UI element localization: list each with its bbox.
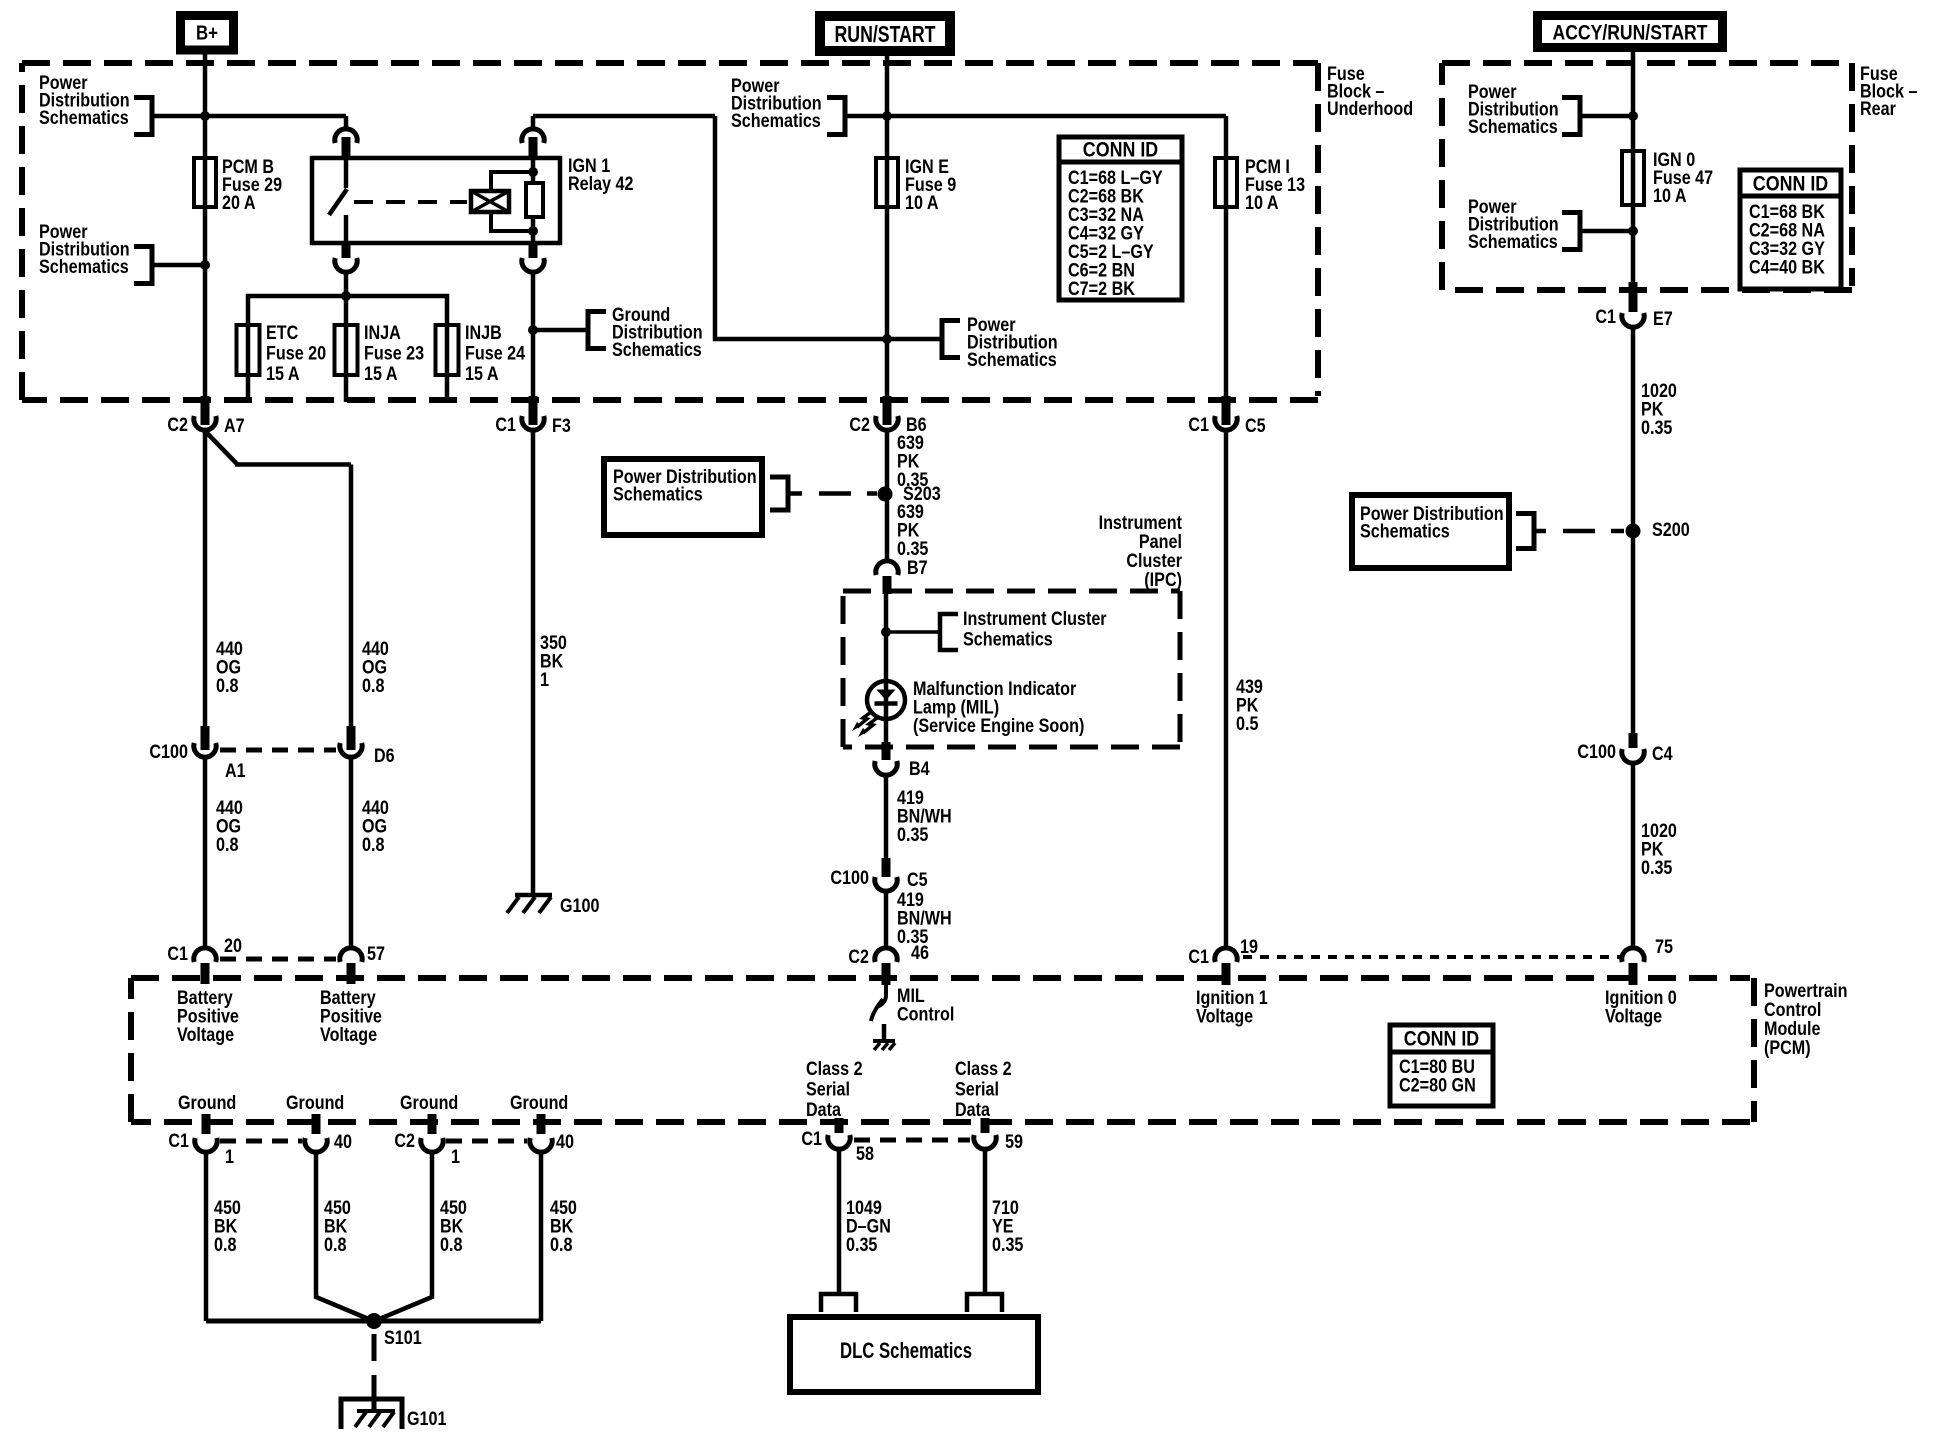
svg-text:0.8: 0.8 — [440, 1235, 463, 1256]
relay switch blade — [329, 189, 347, 215]
fuse IGN 0 Fuse 47 10A — [1622, 151, 1644, 205]
connector C1 19 arc — [1215, 948, 1237, 962]
svg-text:0.8: 0.8 — [324, 1235, 347, 1256]
junction dot instrument cluster tap — [881, 627, 891, 637]
splice S101 — [366, 1313, 382, 1329]
svg-text:CONN ID: CONN ID — [1753, 172, 1828, 195]
wire 450 BK 3 — [377, 1152, 432, 1320]
svg-text:Schematics: Schematics — [612, 340, 702, 361]
svg-text:G101: G101 — [407, 1409, 447, 1430]
PCM internal ground symbol — [873, 1039, 895, 1043]
connector C100 C5 stub — [882, 858, 891, 877]
svg-text:C2=80 GN: C2=80 GN — [1399, 1075, 1476, 1096]
wire 419 BN/WH upper — [884, 775, 889, 862]
svg-text:Schematics: Schematics — [39, 257, 129, 278]
relay winding X-box — [471, 191, 509, 212]
connector C2 46 stub — [882, 963, 891, 985]
wire fuse bank bus — [248, 296, 447, 402]
svg-text:C1: C1 — [1188, 947, 1209, 968]
dash-dot lead to S203 — [789, 491, 802, 496]
svg-text:C2: C2 — [849, 415, 870, 436]
relay top-right pin wire — [531, 116, 536, 130]
connector 75 arc — [1622, 948, 1644, 962]
wire 1049 D-GN — [837, 1149, 842, 1292]
svg-text:C7=2 BK: C7=2 BK — [1068, 279, 1135, 300]
svg-text:0.35: 0.35 — [846, 1235, 878, 1256]
relay top-left pin arc — [335, 129, 357, 143]
svg-text:Ground: Ground — [400, 1093, 458, 1114]
relay bottom-left arc — [335, 258, 357, 272]
svg-text:Fuse 23: Fuse 23 — [364, 343, 424, 364]
svg-text:(IPC): (IPC) — [1144, 570, 1182, 591]
wire bus segment left (y116) — [152, 114, 346, 119]
svg-text:C1: C1 — [167, 944, 188, 965]
relay bottom-right stub — [529, 243, 538, 258]
fuse PCM I Fuse 13 10A — [1215, 158, 1237, 207]
svg-text:C4: C4 — [1652, 744, 1673, 765]
svg-text:ACCY/RUN/START: ACCY/RUN/START — [1553, 21, 1708, 44]
wire INJA fuse feed — [344, 296, 349, 402]
connector C1 58 arc — [828, 1135, 850, 1149]
svg-text:A1: A1 — [225, 761, 246, 782]
fuse IGN E Fuse 9 10A — [876, 158, 898, 207]
svg-text:0.35: 0.35 — [897, 825, 929, 846]
svg-text:C100: C100 — [1577, 742, 1616, 763]
power feed box RUN/START — [820, 16, 950, 51]
svg-text:B+: B+ — [196, 23, 218, 45]
connector C2 B6 stub — [883, 396, 892, 425]
wire IPC internal lower — [884, 700, 889, 742]
svg-text:10 A: 10 A — [1245, 193, 1279, 214]
svg-text:C100: C100 — [830, 868, 869, 889]
junction dot RUN bus — [882, 111, 892, 121]
relay coil parallel loop — [491, 172, 533, 231]
svg-text:Class 2: Class 2 — [806, 1059, 863, 1080]
bracket S200 reference — [1516, 514, 1534, 549]
svg-text:DLC Schematics: DLC Schematics — [840, 1338, 972, 1363]
MIL lamp LED triangle — [877, 690, 896, 701]
wire ground distribution lead — [533, 328, 588, 333]
connector C1 58 stub — [835, 1118, 844, 1133]
junction dot ACCY upper tap — [1628, 111, 1638, 121]
svg-text:57: 57 — [367, 944, 385, 965]
wire corner segment 715 — [715, 116, 942, 339]
svg-text:0.8: 0.8 — [216, 676, 239, 697]
connector C100 pin line dashed — [220, 748, 336, 753]
svg-text:C5: C5 — [907, 870, 928, 891]
wire 1020 PK upper — [1631, 327, 1636, 737]
wire B+ feed vertical — [203, 52, 208, 396]
wire 350 BK — [531, 430, 536, 895]
connector C2 A7 arc — [194, 416, 216, 430]
svg-text:Instrument Cluster: Instrument Cluster — [963, 609, 1107, 630]
svg-text:46: 46 — [911, 943, 929, 964]
junction dot fuse bank — [341, 291, 351, 301]
bracket power distribution schematics (lower left) — [134, 247, 152, 284]
PCM dashed border — [131, 978, 1754, 1122]
relay top-left pin wire — [344, 116, 349, 130]
svg-text:C1: C1 — [1595, 307, 1616, 328]
svg-text:15 A: 15 A — [266, 364, 300, 385]
connector ground 4 arc — [530, 1138, 552, 1152]
svg-text:19: 19 — [1240, 937, 1258, 958]
connector B7 stub — [883, 576, 892, 594]
svg-text:Schematics: Schematics — [1360, 521, 1450, 542]
bracket power distribution schematics (upper left) — [134, 98, 152, 135]
svg-text:C100: C100 — [149, 742, 188, 763]
svg-text:0.8: 0.8 — [216, 835, 239, 856]
relay IGN 1 box — [312, 158, 560, 243]
svg-text:S200: S200 — [1652, 520, 1690, 541]
bracket S203 reference — [770, 477, 788, 510]
wire 639 PK upper — [885, 430, 890, 560]
svg-text:Underhood: Underhood — [1327, 99, 1413, 120]
connector C1 C5 arc — [1215, 416, 1237, 430]
junction dot B+ bus — [200, 111, 210, 121]
wire IPC internal upper — [884, 594, 889, 700]
svg-text:C2: C2 — [394, 1131, 415, 1152]
bracket power distribution schematics (rear lower) — [1562, 213, 1580, 250]
dash-dot lead to S200 — [1535, 529, 1546, 534]
svg-text:C1: C1 — [1188, 415, 1209, 436]
svg-text:40: 40 — [556, 1132, 574, 1153]
svg-text:C1: C1 — [495, 415, 516, 436]
connector B4 stub — [882, 742, 891, 760]
svg-text:0.5: 0.5 — [1236, 714, 1259, 735]
svg-text:0.35: 0.35 — [1641, 858, 1673, 879]
svg-text:40: 40 — [334, 1132, 352, 1153]
DLC schematics box — [790, 1317, 1038, 1392]
relay top-left pin stub — [342, 137, 351, 158]
svg-text:D6: D6 — [374, 746, 395, 767]
svg-text:Cluster: Cluster — [1126, 551, 1182, 572]
junction dot B+ tap2 — [200, 260, 210, 270]
svg-text:Serial: Serial — [806, 1079, 850, 1100]
svg-text:0.8: 0.8 — [362, 835, 385, 856]
svg-text:10 A: 10 A — [1653, 186, 1687, 207]
relay switch fixed lead — [344, 158, 349, 188]
svg-text:C4=40 BK: C4=40 BK — [1749, 257, 1825, 278]
svg-text:15 A: 15 A — [364, 364, 398, 385]
svg-text:Powertrain: Powertrain — [1764, 981, 1848, 1002]
relay top-right pin stub — [529, 137, 538, 158]
wire bus segment relay to corner (y116) — [533, 114, 715, 119]
connector C100 D6 stub — [347, 726, 356, 750]
connector C1 E7 arc — [1622, 313, 1644, 327]
svg-text:C1: C1 — [168, 1131, 189, 1152]
svg-text:0.8: 0.8 — [214, 1235, 237, 1256]
fuse INJB Fuse 24 15A — [436, 325, 459, 375]
connector 75 stub — [1629, 963, 1638, 985]
ground G101 symbol — [341, 1399, 402, 1429]
wire 1020 PK lower — [1631, 763, 1636, 947]
bracket instrument cluster schematics — [940, 614, 958, 650]
connector ground 2 arc — [305, 1138, 327, 1152]
junction dot ACCY lower tap — [1628, 226, 1638, 236]
wire branch diagonal from A7 — [206, 432, 237, 464]
svg-text:Ground: Ground — [178, 1093, 236, 1114]
connector B7 arc — [876, 561, 898, 575]
relay coil element — [526, 183, 543, 217]
relay bottom-left stub — [342, 243, 351, 258]
svg-text:(Service Engine Soon): (Service Engine Soon) — [913, 716, 1084, 737]
svg-text:Schematics: Schematics — [731, 111, 821, 132]
wire relay output to fuse bus — [344, 272, 349, 296]
junction dot RUN lower tap — [882, 334, 892, 344]
svg-text:B7: B7 — [907, 558, 928, 579]
svg-text:Schematics: Schematics — [963, 629, 1053, 650]
splice S200 — [1626, 524, 1641, 539]
wire ACCY feed vertical — [1631, 52, 1636, 286]
CONN ID table rear box — [1740, 170, 1841, 289]
connector ground 1 arc — [195, 1138, 217, 1152]
svg-text:Serial: Serial — [955, 1079, 999, 1100]
terminal DLC left — [821, 1294, 856, 1312]
svg-text:59: 59 — [1005, 1132, 1023, 1153]
svg-text:Fuse 20: Fuse 20 — [266, 343, 326, 364]
connector C100 A1 arc — [194, 743, 216, 757]
connector C1 F3 stub — [529, 396, 538, 425]
connector C2 46 arc — [875, 948, 897, 962]
svg-text:RUN/START: RUN/START — [835, 21, 936, 47]
wire 440 OG left lower — [203, 757, 208, 947]
relay coil junction top dot — [528, 167, 538, 177]
reference box power distribution schematics (S203) — [604, 459, 762, 535]
svg-text:G100: G100 — [560, 896, 600, 917]
relay top-right pin arc — [522, 129, 544, 143]
MIL lamp light arrows — [857, 712, 871, 727]
wire 450 BK 4 — [539, 1152, 544, 1321]
svg-text:Schematics: Schematics — [39, 108, 129, 129]
wire ACCY upper tap lead — [1580, 114, 1633, 119]
IPC dashed border — [843, 591, 1180, 747]
MIL lamp circle — [867, 681, 905, 719]
bracket power distribution schematics (rear upper) — [1562, 98, 1580, 135]
svg-text:CONN ID: CONN ID — [1404, 1027, 1479, 1050]
svg-text:Control: Control — [897, 1004, 954, 1025]
svg-text:F3: F3 — [552, 416, 571, 437]
svg-text:C5: C5 — [1245, 416, 1266, 437]
svg-text:A7: A7 — [224, 416, 245, 437]
wire branch horizontal — [235, 462, 351, 467]
svg-text:Rear: Rear — [1860, 99, 1896, 120]
svg-text:Voltage: Voltage — [1196, 1006, 1253, 1027]
reference box power distribution schematics (S200) — [1352, 495, 1509, 568]
connector C1 20 stub — [201, 963, 210, 984]
relay coil junction bottom dot — [528, 226, 538, 236]
svg-text:Module: Module — [1764, 1019, 1821, 1040]
wire 450 BK 2 — [316, 1152, 371, 1320]
fuse INJA Fuse 23 15A — [335, 325, 358, 375]
wire 439 PK — [1224, 430, 1229, 947]
svg-text:INJB: INJB — [465, 323, 502, 344]
bracket power distribution schematics (upper middle) — [827, 98, 845, 135]
svg-text:0.35: 0.35 — [992, 1235, 1024, 1256]
connector C1 F3 arc — [522, 416, 544, 430]
MIL lamp LED bar — [875, 701, 898, 706]
svg-text:Voltage: Voltage — [320, 1025, 377, 1046]
wire relay F3 vertical — [531, 272, 536, 396]
svg-text:Panel: Panel — [1139, 532, 1182, 553]
svg-text:(PCM): (PCM) — [1764, 1038, 1811, 1059]
connector ground 3 stub — [428, 1114, 437, 1134]
svg-text:Instrument: Instrument — [1099, 513, 1183, 534]
connector 59 arc — [974, 1135, 996, 1149]
svg-text:C2: C2 — [848, 947, 869, 968]
fuse block rear dashed border — [1442, 63, 1852, 290]
PCM MIL driver switch — [877, 985, 886, 1007]
connector C100 C5 arc — [875, 877, 897, 891]
svg-text:CONN ID: CONN ID — [1083, 138, 1158, 161]
svg-text:Relay 42: Relay 42 — [568, 174, 634, 195]
svg-text:15 A: 15 A — [465, 364, 499, 385]
relay actuator dashed line — [354, 200, 467, 204]
ground G100 symbol — [515, 893, 552, 898]
connector C100 C4 stub — [1629, 733, 1638, 748]
connector ground 4 stub — [537, 1114, 546, 1134]
connector ground 2 stub — [312, 1114, 321, 1134]
svg-text:B4: B4 — [909, 759, 930, 780]
svg-text:E7: E7 — [1653, 309, 1673, 330]
svg-text:Fuse 24: Fuse 24 — [465, 343, 525, 364]
fuse PCM B Fuse 29 20A — [194, 158, 216, 207]
svg-text:Schematics: Schematics — [1468, 232, 1558, 253]
connector B4 arc — [875, 761, 897, 775]
wire tap lead (y265) — [152, 263, 205, 268]
PCM internal ground stub — [882, 1024, 887, 1041]
bracket ground distribution schematics — [588, 312, 606, 349]
relay bottom-right arc — [522, 258, 544, 272]
connector ground pin line dashed 1-2 — [220, 1139, 302, 1144]
terminal DLC right — [967, 1294, 1002, 1312]
wire bus segment right (y116) — [845, 114, 1226, 119]
power feed box ACCY/RUN/START — [1538, 16, 1723, 48]
power feed box B+ — [181, 16, 234, 51]
svg-text:0.35: 0.35 — [897, 539, 929, 560]
connector C100 A1 stub — [201, 726, 210, 750]
connector 57 stub — [347, 963, 356, 984]
svg-text:20 A: 20 A — [222, 193, 256, 214]
relay coil pin wire lower — [531, 217, 536, 243]
wire 710 YE — [983, 1149, 988, 1292]
CONN ID table pcm box — [1390, 1025, 1493, 1106]
wire RUN/START feed vertical — [885, 53, 890, 396]
connector ground 1 stub — [202, 1114, 211, 1134]
wire instrument cluster lead — [886, 630, 940, 634]
wire ACCY lower tap lead — [1580, 229, 1633, 234]
connector C1 20 arc — [194, 948, 216, 962]
svg-text:Voltage: Voltage — [177, 1025, 234, 1046]
svg-text:1: 1 — [540, 670, 549, 691]
connector 58-59 pin line dashed — [854, 1138, 970, 1143]
bracket power distribution schematics (lower middle) — [942, 321, 960, 358]
connector C100 C4 arc — [1622, 749, 1644, 763]
wire 450 BK 1 — [204, 1152, 209, 1321]
svg-text:0.8: 0.8 — [550, 1235, 573, 1256]
relay coil pin wire upper — [531, 158, 536, 183]
wire 440 OG right lower — [349, 757, 354, 947]
svg-text:C1: C1 — [801, 1129, 822, 1150]
svg-text:Control: Control — [1764, 1000, 1821, 1021]
svg-text:20: 20 — [224, 936, 242, 957]
svg-text:58: 58 — [856, 1144, 874, 1165]
CONN ID table underhood box — [1059, 137, 1182, 300]
svg-text:10 A: 10 A — [905, 193, 939, 214]
connector C2 A7 stub — [201, 396, 210, 425]
junction dot ground distribution tap — [528, 325, 538, 335]
connector C1 E7 stub — [1629, 282, 1638, 312]
svg-text:S101: S101 — [384, 1328, 422, 1349]
fuse ETC Fuse 20 15A — [237, 325, 260, 375]
connector 59 stub — [981, 1118, 990, 1133]
svg-text:Schematics: Schematics — [613, 484, 703, 505]
svg-text:Data: Data — [955, 1100, 990, 1121]
svg-text:Class 2: Class 2 — [955, 1059, 1012, 1080]
wire PCM I vertical — [1224, 116, 1229, 396]
wire S101 to G101 dashed — [372, 1334, 377, 1398]
wire 440 OG left upper — [203, 430, 208, 726]
svg-text:INJA: INJA — [364, 323, 401, 344]
relay switch lower lead — [344, 215, 349, 243]
svg-text:C2: C2 — [167, 415, 188, 436]
connector C1 C5 stub — [1222, 396, 1231, 425]
connector 57 arc — [340, 948, 362, 962]
fuse block underhood dashed border — [22, 63, 1318, 400]
svg-text:0.35: 0.35 — [1641, 418, 1673, 439]
svg-text:Schematics: Schematics — [967, 350, 1057, 371]
svg-text:Data: Data — [806, 1100, 841, 1121]
svg-text:1: 1 — [225, 1147, 234, 1168]
connector C1 19 stub — [1222, 963, 1231, 985]
wire 419 BN/WH lower — [884, 891, 889, 947]
connector ground pin line dashed 3-4 — [446, 1139, 527, 1144]
wire 440 OG right upper — [349, 465, 354, 727]
connector C1-57 pin line dashed — [220, 957, 336, 962]
connector C100 D6 arc — [340, 743, 362, 757]
svg-text:Schematics: Schematics — [1468, 117, 1558, 138]
svg-text:0.8: 0.8 — [362, 676, 385, 697]
splice S203 — [878, 487, 893, 502]
svg-text:Voltage: Voltage — [1605, 1006, 1662, 1027]
connector ground 3 arc — [421, 1138, 443, 1152]
svg-text:ETC: ETC — [266, 323, 299, 344]
svg-text:Ground: Ground — [510, 1093, 568, 1114]
wire ground bus — [206, 1319, 541, 1324]
svg-text:Ground: Ground — [286, 1093, 344, 1114]
svg-text:1: 1 — [451, 1147, 460, 1168]
connector C2 B6 arc — [876, 416, 898, 430]
svg-text:75: 75 — [1655, 937, 1673, 958]
connector 19-75 pin line dashed — [1243, 955, 1620, 959]
